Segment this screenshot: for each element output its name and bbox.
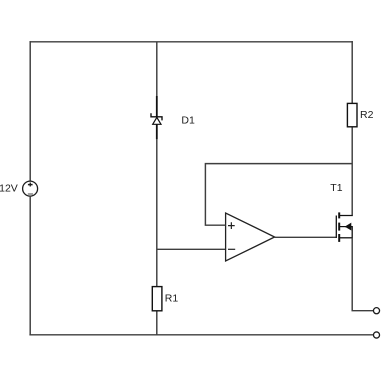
zener diode D1: [151, 96, 162, 139]
svg-text:12V: 12V: [0, 183, 18, 195]
wire left lower: [29, 196, 31, 335]
terminal output upper: [373, 308, 379, 314]
wire bottom rail: [29, 334, 373, 336]
wire right branch upper: [351, 41, 353, 103]
op-amp U1: [226, 213, 275, 261]
transistor T1 (n-MOSFET): [336, 212, 352, 242]
wire feedback (from non-inverting input up and over to drain node): [205, 164, 352, 226]
wire left upper: [29, 41, 31, 181]
svg-text:R2: R2: [360, 109, 374, 121]
wire middle branch upper: [156, 42, 158, 97]
wire right branch mid (R2 to drain): [351, 127, 353, 215]
svg-text:D1: D1: [181, 114, 195, 126]
terminal output lower: [373, 332, 379, 338]
wire inverting input (node between D1 and R1 to op-amp minus): [157, 248, 226, 250]
wire op-amp output to gate: [275, 236, 337, 238]
wire middle branch lower: [156, 312, 158, 335]
voltage source V1 12V: [23, 181, 38, 196]
resistor R2: [347, 103, 357, 126]
wire middle branch mid: [156, 139, 158, 286]
svg-text:T1: T1: [330, 182, 342, 194]
wire top rail: [30, 41, 353, 43]
wire source to output terminal: [352, 238, 373, 311]
resistor R1: [152, 287, 162, 311]
svg-text:R1: R1: [165, 293, 179, 305]
